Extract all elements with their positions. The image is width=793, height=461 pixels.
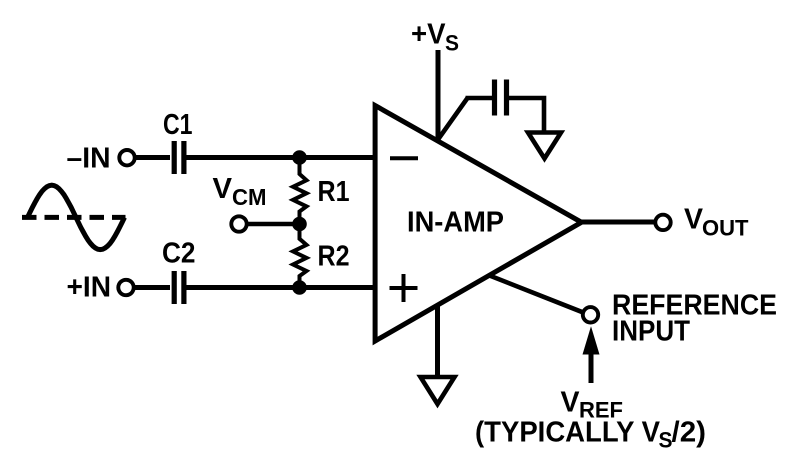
wire C1 to inverting input [186,155,375,160]
svg-text:+V: +V [411,19,446,51]
svg-text:C2: C2 [162,238,196,270]
wire C2 to non-inverting input [186,285,375,290]
wire output to VOUT terminal [582,220,655,225]
dashed zero-axis line of sine symbol [22,215,126,220]
terminal -IN [119,150,134,165]
capacitor C2 [172,271,177,304]
svg-text:(TYPICALLY V: (TYPICALLY V [475,417,661,449]
resistor R2 [293,224,307,288]
minus input symbol [390,156,418,160]
wire +IN terminal to C2 [134,285,171,290]
terminal REFERENCE INPUT [583,307,598,322]
svg-text:–IN: –IN [67,143,111,175]
terminal VOUT [655,215,670,230]
ground symbol (decoupling capacitor) [528,133,561,159]
wire capacitor right plate to ground drop [509,98,544,133]
wire op-amp bottom to ground [435,305,440,378]
svg-text:V: V [684,204,704,236]
wire -IN terminal to C1 [135,155,171,160]
terminal +IN [118,280,133,295]
wire VCM terminal to node B [247,222,300,227]
wire supply node to decoupling capacitor (diagonal) [438,98,468,140]
svg-text:+IN: +IN [67,272,112,304]
svg-text:V: V [561,387,581,419]
wire reference pin to reference terminal [490,276,583,313]
svg-text:R1: R1 [318,176,350,208]
svg-text:INPUT: INPUT [612,316,690,348]
sine wave source symbol [28,185,125,249]
svg-text:V: V [213,173,233,205]
decoupling capacitor C3 [492,80,497,116]
svg-text:S: S [659,428,673,453]
node C junction dot on +IN line [292,280,307,295]
wire diagonal to capacitor left plate [466,96,493,101]
terminal VCM [231,216,246,231]
node A junction dot on -IN line [292,150,307,165]
wire +VS supply line [436,50,441,141]
svg-text:C1: C1 [163,109,193,141]
node B mid junction dot between R1 and R2 [292,217,307,232]
plus input symbol [390,286,418,290]
svg-text:CM: CM [232,184,267,210]
svg-text:R2: R2 [318,241,350,273]
svg-text:OUT: OUT [702,216,749,241]
svg-text:S: S [445,31,459,56]
op-amp U1 triangle body [375,106,581,342]
ground symbol (op-amp) [421,377,455,404]
svg-text:/2): /2) [672,417,707,449]
resistor R1 [293,158,307,225]
arrow VREF pointing to reference terminal [589,352,594,383]
capacitor C1 [172,141,177,174]
svg-text:IN-AMP: IN-AMP [407,207,504,239]
